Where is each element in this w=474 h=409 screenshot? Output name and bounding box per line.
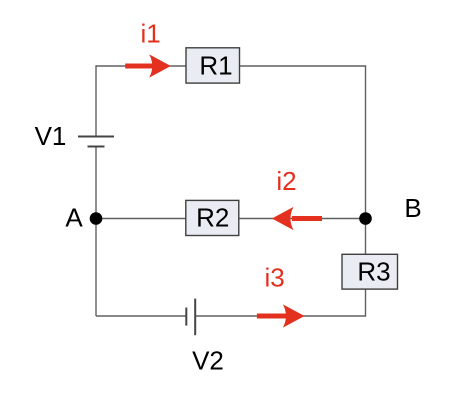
svg-text:A: A <box>65 202 83 232</box>
wire left lower segment <box>95 147 97 317</box>
current arrow i3 <box>257 304 305 327</box>
wire top-left segment <box>96 65 186 67</box>
wire middle-left segment <box>96 218 186 220</box>
wire right lower segment <box>365 289 367 317</box>
svg-text:i2: i2 <box>276 166 296 196</box>
svg-text:i1: i1 <box>140 18 160 48</box>
svg-text:i3: i3 <box>264 262 284 292</box>
wire right upper segment <box>365 65 367 254</box>
node A <box>90 212 103 225</box>
wire middle-right segment <box>240 218 366 220</box>
wire bottom-left segment <box>96 315 186 317</box>
svg-text:V1: V1 <box>35 121 67 151</box>
svg-text:R3: R3 <box>357 257 390 287</box>
wire bottom-right segment <box>195 315 365 317</box>
current arrow i1 <box>125 54 171 77</box>
battery V2 <box>186 299 195 336</box>
svg-text:V2: V2 <box>192 345 224 375</box>
resistor R3 <box>342 254 398 289</box>
current arrow i2 <box>272 207 322 230</box>
resistor R1 <box>186 48 240 83</box>
battery V1 <box>78 137 114 147</box>
svg-text:R2: R2 <box>196 203 229 233</box>
node B <box>359 212 372 225</box>
svg-text:R1: R1 <box>199 51 232 81</box>
wire left upper segment <box>95 65 97 136</box>
resistor R2 <box>186 200 239 235</box>
wire top-right segment <box>240 65 366 67</box>
svg-text:B: B <box>404 193 421 223</box>
